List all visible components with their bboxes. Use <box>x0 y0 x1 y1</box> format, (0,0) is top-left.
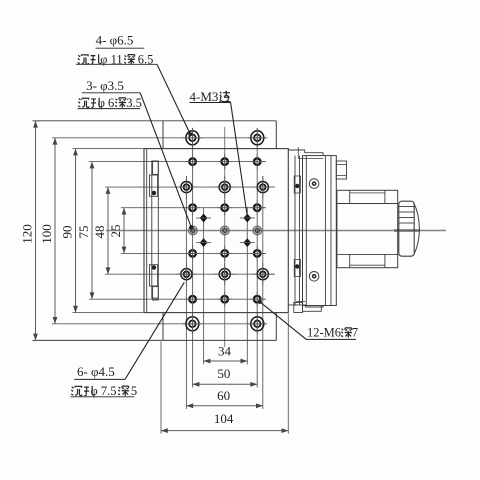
top step inner line <box>298 157 323 159</box>
bottom tab left edge <box>162 313 164 341</box>
label 12-M6 underline <box>306 338 356 340</box>
svg-text:75: 75 <box>76 226 91 239</box>
label 2 second underline <box>78 108 141 110</box>
left gib clamp upper screw <box>152 191 156 195</box>
main plate top edge ext <box>73 148 145 150</box>
top tab top edge + 120 ext <box>33 120 277 122</box>
left gib clamp lower screw <box>152 266 156 270</box>
column line M3 left / 34-dim ext <box>203 207 205 364</box>
dimension 90 line <box>73 149 78 313</box>
leader to M3 hole <box>231 103 247 214</box>
label 5 second underline <box>71 396 135 398</box>
right gib clamp upper <box>294 176 300 193</box>
hole M6 row7 col3 <box>250 292 265 307</box>
dimension 75 line <box>90 162 95 300</box>
sleeve bottom partition b <box>384 254 386 267</box>
knob knurl line 3 <box>399 217 414 219</box>
hole phi4.5 row6 col2 <box>214 263 236 285</box>
hole M6 row3 col2 <box>217 200 232 215</box>
hole phi4.5 row2 col1 <box>175 176 197 198</box>
hole phi3.5 row4 col3 <box>253 226 262 235</box>
row line R1 (75 dim) <box>89 161 266 163</box>
right gib strip line a <box>294 156 296 306</box>
dimension 34 line <box>204 359 248 364</box>
svg-text:25: 25 <box>108 225 123 238</box>
label counterbore phi11 deep6.5 <box>78 53 154 67</box>
column line C3 / 50-dim ext <box>256 128 258 388</box>
bottom step tab <box>303 306 322 312</box>
vertical centerline column C2 <box>224 127 226 347</box>
bottom step small block <box>294 303 303 313</box>
hole M3 #3 <box>196 238 211 247</box>
svg-text:60: 60 <box>217 388 230 403</box>
left gib clamp lower <box>150 265 158 286</box>
right gib strip line b <box>299 156 301 306</box>
knob knurl line 2 <box>399 211 414 213</box>
side plate inner line a <box>324 156 326 306</box>
leader dot center row <box>190 226 193 229</box>
hole phi4.5 row6 col1 <box>175 263 197 285</box>
knob dome arc <box>414 203 420 256</box>
svg-text:90: 90 <box>60 226 75 239</box>
dimension 50 line <box>193 382 258 387</box>
knob body <box>399 201 414 256</box>
hole M6 row5 col3 <box>250 246 265 261</box>
sleeve bottom inner line <box>337 253 398 255</box>
svg-text:34: 34 <box>218 343 232 358</box>
hole M6 row7 col1 <box>185 292 200 307</box>
hole M6 row5 col2 <box>217 246 232 261</box>
svg-text:φ 7.5: φ 7.5 <box>91 384 117 398</box>
dimension 48 line <box>106 187 111 274</box>
sleeve bottom partition a <box>349 254 351 267</box>
svg-text:5: 5 <box>131 384 137 398</box>
label 1 second underline <box>76 63 157 65</box>
hole M3 #4 <box>240 238 255 247</box>
column line D3 / 60-dim ext <box>262 176 264 409</box>
row line tab-top holes <box>52 137 266 139</box>
row line R2 (48 dim) <box>105 186 275 188</box>
hole M6 row1 col3 <box>250 154 265 169</box>
svg-text:48: 48 <box>92 226 107 239</box>
row line tab-bottom holes <box>52 323 266 325</box>
hole phi4.5 row2 col3 <box>252 176 274 198</box>
knob knurl line 1 <box>399 206 414 208</box>
ext 120 top stub <box>36 120 41 122</box>
label 12-M6 shen glyph <box>341 328 352 338</box>
leader to center row hole <box>140 93 191 228</box>
svg-text:3.5: 3.5 <box>126 96 142 110</box>
hole M6 row1 col2 <box>217 154 232 169</box>
sleeve top inner line <box>337 203 398 205</box>
left gib top block <box>153 161 159 174</box>
main plate bottom edge ext <box>73 312 145 314</box>
svg-text:4-M3: 4-M3 <box>190 89 219 104</box>
column line C1 / 50-dim ext <box>192 128 194 388</box>
counterbore hole phi6.5 #1 <box>182 128 202 148</box>
right gib clamp upper screw <box>296 184 299 187</box>
svg-text:120: 120 <box>20 224 35 244</box>
hole M6 row1 col1 <box>185 154 200 169</box>
sleeve top partition a <box>349 190 351 203</box>
hole M3 #2 <box>240 214 255 223</box>
hole M6 row3 col3 <box>250 200 265 215</box>
connector block line a <box>336 164 346 166</box>
dimension 60 line <box>186 403 262 408</box>
connector block line b <box>336 175 346 177</box>
row line R5 <box>121 252 266 254</box>
column line M3 right / 34-dim ext <box>246 207 248 364</box>
row line R3 (25 dim) <box>121 207 266 209</box>
label counterbore phi7.5 deep5 <box>71 384 137 398</box>
centerline dark segment across knob <box>394 229 420 232</box>
knob knurl line 4 <box>399 222 414 224</box>
plate inner left edge line <box>146 149 148 313</box>
top tab left edge <box>162 121 164 149</box>
label 4-M3 underline <box>189 102 230 104</box>
hole M3 #1 <box>196 214 211 223</box>
side plate screw #2 <box>309 272 319 282</box>
left gib clamp upper <box>150 175 158 196</box>
svg-text:φ 6: φ 6 <box>98 96 115 110</box>
svg-text:3- φ3.5: 3- φ3.5 <box>86 78 124 93</box>
sleeve bottom mid bar line <box>350 264 385 266</box>
bottom tab right edge <box>275 313 277 341</box>
side plate inner line b <box>330 156 332 306</box>
leader to tab hole <box>157 64 190 134</box>
row line R6 <box>105 273 275 275</box>
leader dot M6 <box>258 300 261 303</box>
row line R7 <box>89 298 266 300</box>
hole M6 row5 col1 <box>185 246 200 261</box>
side plate body <box>303 156 337 306</box>
label 3-phi3.5 underline <box>82 92 140 94</box>
left gib bottom block <box>153 287 159 300</box>
ext 104 right <box>287 314 289 434</box>
svg-text:50: 50 <box>217 366 230 381</box>
label 4-M3 tou glyph <box>219 91 230 102</box>
label 6-phi4.5 underline <box>74 378 125 380</box>
sleeve top mid bar line <box>350 192 385 194</box>
main plate outline <box>144 149 288 313</box>
counterbore hole phi6.5 #2 <box>247 128 267 148</box>
hole M6 row7 col2 <box>217 292 232 307</box>
right gib clamp lower screw <box>296 265 299 268</box>
svg-text:4- φ6.5: 4- φ6.5 <box>96 33 134 48</box>
dimension 100 line <box>53 138 58 324</box>
svg-text:100: 100 <box>39 224 54 244</box>
ext 104 left <box>160 342 162 434</box>
counterbore hole phi6.5 #3 <box>182 314 202 334</box>
hole phi4.5 row6 col3 <box>252 263 274 285</box>
horizontal centerline axis <box>106 230 446 232</box>
sleeve outer <box>337 190 398 267</box>
sleeve top partition b <box>384 190 386 203</box>
label 4-phi6.5 underline <box>96 47 145 49</box>
side plate screw #1 <box>309 179 319 189</box>
top step 1 <box>288 149 323 156</box>
hole phi3.5 row4 col1 <box>189 226 198 235</box>
leader to phi4.5 hole <box>125 282 184 379</box>
svg-text:6- φ4.5: 6- φ4.5 <box>77 364 115 379</box>
leader to M6 hole <box>260 302 307 340</box>
dimension 104 line <box>161 428 288 433</box>
top tab right edge <box>275 121 277 149</box>
dimension 120 line <box>33 121 38 341</box>
leader dot tab hole <box>189 133 192 136</box>
bottom step inner line <box>296 300 305 302</box>
svg-text:104: 104 <box>214 411 234 426</box>
bottom step 1 <box>288 305 323 307</box>
top step vertical <box>297 147 299 158</box>
column line D1 / 60-dim ext <box>185 176 187 409</box>
bottom tab bottom edge + 120 ext <box>33 339 277 341</box>
counterbore hole phi6.5 #4 <box>247 314 267 334</box>
svg-text:12-M6: 12-M6 <box>307 326 341 340</box>
dimension 25 line <box>122 208 127 254</box>
svg-text:7: 7 <box>352 326 358 340</box>
label counterbore phi6 deep3.5 <box>78 96 142 110</box>
hole M6 row3 col1 <box>185 200 200 215</box>
side plate inner left line <box>305 156 307 306</box>
hole phi3.5 row4 col2 <box>221 226 230 235</box>
left gib strip <box>152 161 159 298</box>
top-right connector block <box>336 161 346 179</box>
hole phi4.5 row2 col2 <box>214 176 236 198</box>
right gib clamp lower <box>294 260 300 277</box>
